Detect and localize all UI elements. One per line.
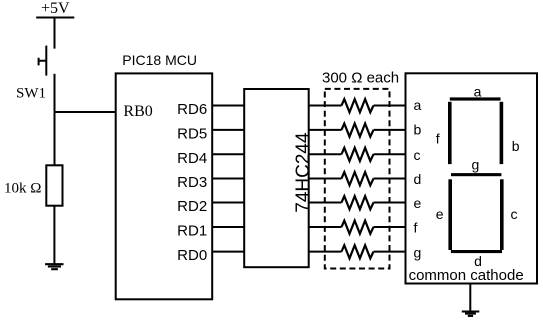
segment d bar bbox=[451, 250, 502, 253]
resistor R1 body bbox=[46, 165, 62, 205]
svg-text:RD1: RD1 bbox=[177, 223, 207, 240]
segment c bar bbox=[500, 179, 504, 250]
wire buffer to resistor c bbox=[309, 153, 342, 155]
svg-text:a: a bbox=[474, 83, 482, 99]
segment a bar bbox=[450, 97, 501, 100]
display DS1 box bbox=[406, 73, 538, 283]
resistor network dashed box bbox=[325, 89, 390, 269]
svg-text:+5V: +5V bbox=[41, 0, 70, 17]
svg-text:RB0: RB0 bbox=[123, 103, 152, 120]
wire RD4 to buffer bbox=[212, 153, 244, 155]
svg-text:b: b bbox=[414, 121, 422, 137]
svg-text:d: d bbox=[414, 171, 422, 187]
resistor Rd 300 bbox=[342, 172, 374, 185]
svg-text:b: b bbox=[512, 138, 520, 154]
wire node to RB0 pin bbox=[55, 111, 116, 113]
wire buffer to resistor d bbox=[309, 178, 342, 180]
svg-text:SW1: SW1 bbox=[16, 86, 46, 102]
segment g bar bbox=[451, 173, 501, 176]
svg-text:10k Ω: 10k Ω bbox=[4, 180, 41, 196]
ground (left) bbox=[45, 264, 63, 269]
wire RD5 to buffer bbox=[212, 129, 244, 131]
resistor Rf 300 bbox=[342, 221, 374, 234]
svg-text:RD3: RD3 bbox=[177, 174, 207, 191]
MCU U1 box bbox=[116, 73, 213, 299]
+5V rail bar bbox=[36, 17, 74, 19]
svg-text:a: a bbox=[414, 97, 422, 113]
wire buffer to resistor e bbox=[309, 202, 342, 204]
wire buffer to resistor f bbox=[309, 226, 342, 228]
segment b bar bbox=[500, 102, 504, 164]
wire buffer to resistor a bbox=[309, 105, 342, 107]
svg-text:c: c bbox=[511, 206, 518, 222]
svg-text:RD5: RD5 bbox=[177, 126, 207, 143]
wire buffer to resistor b bbox=[309, 129, 342, 131]
wire resistor g to display bbox=[374, 251, 406, 253]
ground (display) bbox=[462, 312, 480, 316]
svg-text:74HC244: 74HC244 bbox=[293, 132, 314, 213]
wire switch to resistor bbox=[54, 74, 56, 166]
wire RD2 to buffer bbox=[212, 202, 244, 204]
wire resistor f to display bbox=[374, 226, 406, 228]
resistor Rg 300 bbox=[342, 245, 374, 258]
svg-text:f: f bbox=[414, 220, 418, 236]
wire RD3 to buffer bbox=[212, 178, 244, 180]
svg-text:e: e bbox=[436, 206, 444, 222]
segment f bar bbox=[448, 102, 452, 164]
svg-text:e: e bbox=[414, 195, 422, 211]
wire RD6 to buffer bbox=[212, 105, 244, 107]
svg-text:PIC18 MCU: PIC18 MCU bbox=[122, 52, 197, 68]
svg-text:RD6: RD6 bbox=[177, 101, 207, 118]
resistor Rc 300 bbox=[342, 148, 374, 161]
wire resistor e to display bbox=[374, 202, 406, 204]
wire resistor c to display bbox=[374, 153, 406, 155]
svg-text:RD4: RD4 bbox=[177, 150, 207, 167]
wire resistor to ground bbox=[53, 206, 55, 264]
wire +5V to switch bbox=[54, 18, 56, 49]
switch SW1 plunger bbox=[39, 58, 46, 66]
wire display to ground bbox=[469, 284, 471, 310]
wire resistor a to display bbox=[374, 105, 406, 107]
resistor Re 300 bbox=[342, 196, 374, 209]
svg-text:RD2: RD2 bbox=[177, 198, 207, 215]
svg-text:f: f bbox=[436, 130, 440, 146]
buffer 74HC244 box bbox=[244, 89, 309, 267]
resistor Ra 300 bbox=[342, 99, 374, 112]
wire resistor d to display bbox=[374, 178, 406, 180]
svg-text:RD0: RD0 bbox=[177, 247, 207, 264]
svg-text:g: g bbox=[414, 244, 422, 260]
switch SW1 contact bar bbox=[45, 46, 47, 76]
wire RD1 to buffer bbox=[212, 226, 244, 228]
svg-text:300 Ω each: 300 Ω each bbox=[322, 70, 399, 87]
svg-text:g: g bbox=[472, 157, 480, 173]
resistor Rb 300 bbox=[342, 124, 374, 137]
svg-text:c: c bbox=[414, 147, 421, 163]
wire buffer to resistor g bbox=[309, 251, 342, 253]
svg-text:common cathode: common cathode bbox=[409, 267, 524, 284]
segment e bar bbox=[448, 179, 452, 250]
wire RD0 to buffer bbox=[212, 251, 244, 253]
wire resistor b to display bbox=[374, 129, 406, 131]
